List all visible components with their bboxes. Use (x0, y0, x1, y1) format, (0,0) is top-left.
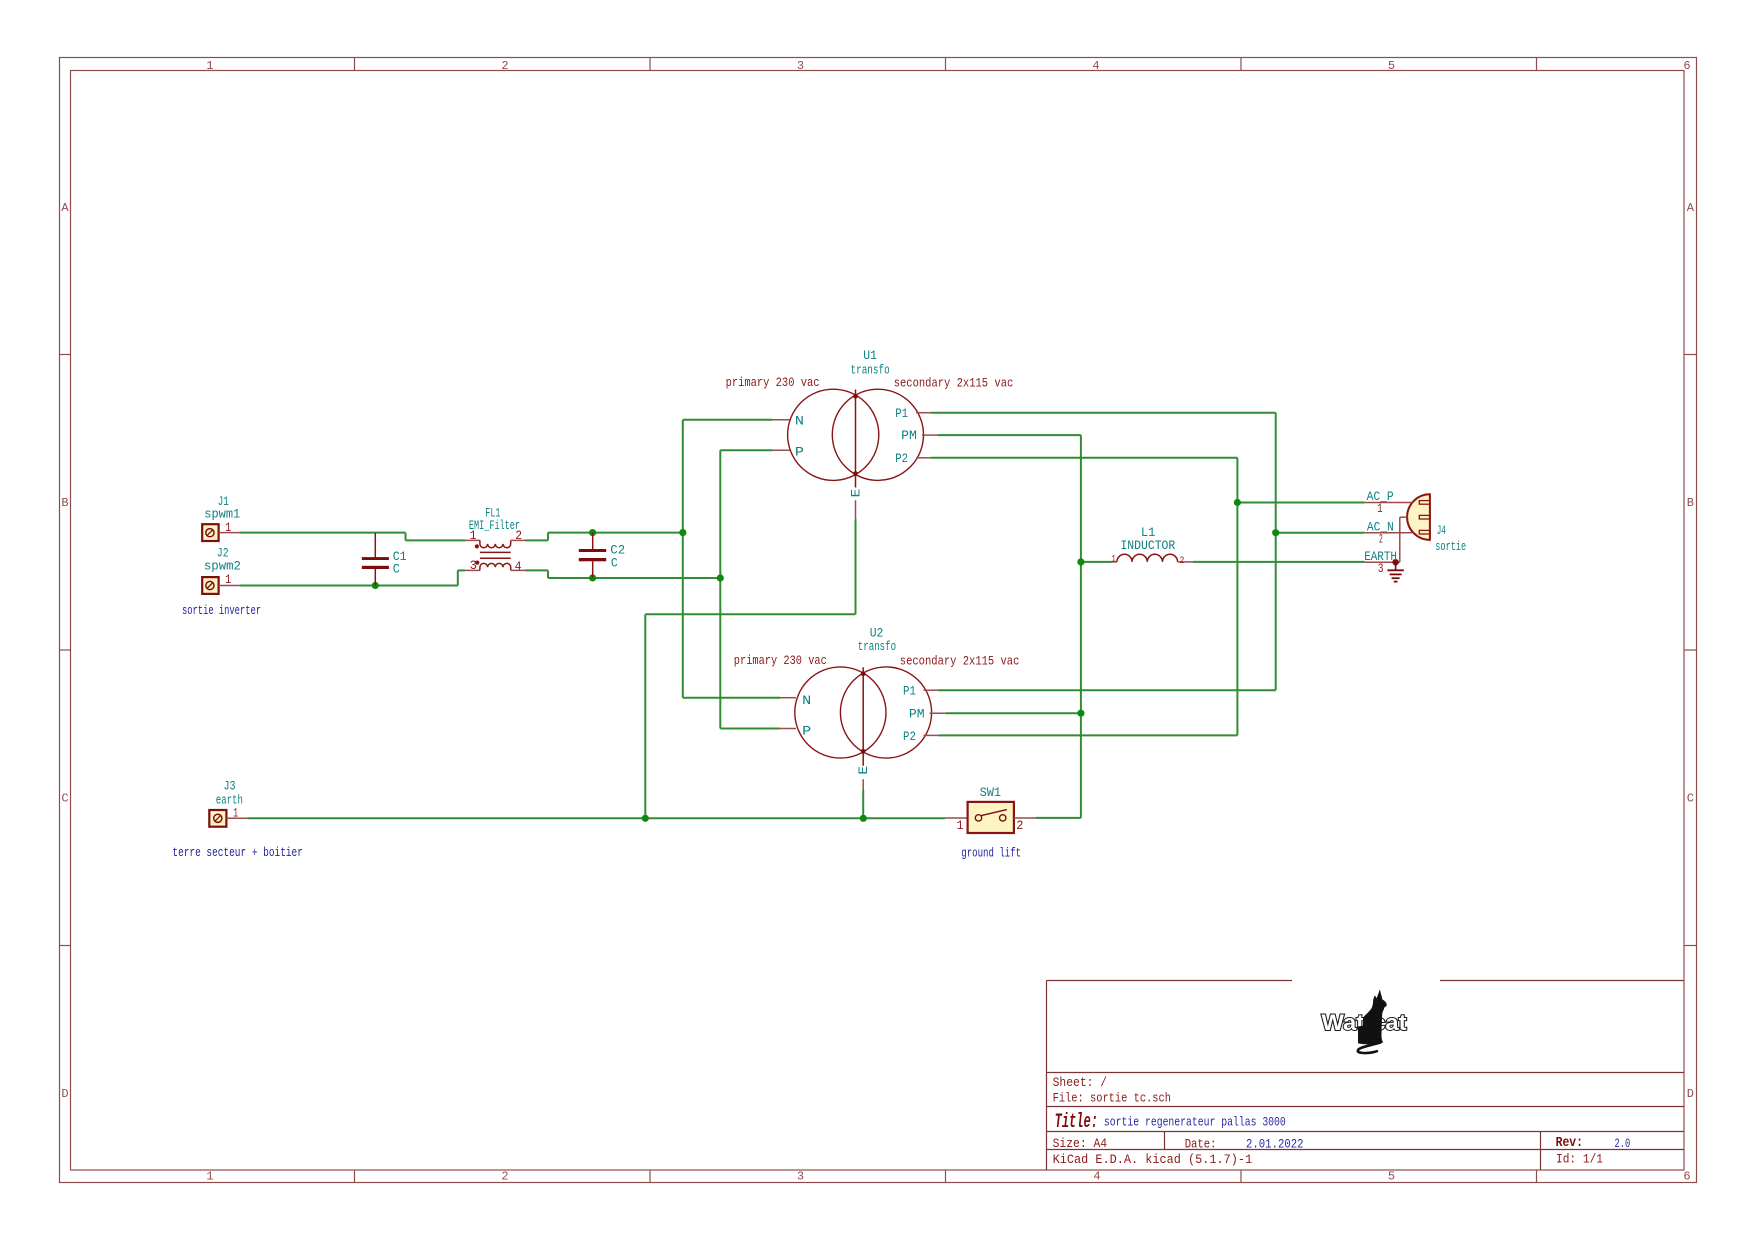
svg-text:1: 1 (225, 520, 231, 535)
svg-text:earth: earth (216, 792, 243, 807)
connector J3 (209, 810, 247, 827)
row tick C/D right (1684, 945, 1697, 947)
svg-text:N: N (795, 414, 804, 429)
connector J2 (202, 577, 240, 594)
svg-text:N: N (802, 693, 811, 708)
svg-text:P1: P1 (895, 406, 908, 421)
wire U1 E down (855, 519, 857, 615)
junction P rail end (717, 574, 724, 581)
wire to U1 N (683, 419, 773, 421)
svg-text:spwm2: spwm2 (204, 559, 241, 574)
wire spwm1 J1 to jog (240, 532, 406, 534)
title block line above Sheet (1047, 1072, 1685, 1074)
svg-text:spwm1: spwm1 (204, 507, 240, 522)
svg-text:3: 3 (797, 1170, 804, 1184)
svg-text:D: D (61, 1087, 68, 1101)
title block line above Title (1047, 1106, 1685, 1108)
svg-text:1: 1 (470, 528, 477, 543)
svg-text:PM: PM (909, 707, 925, 722)
svg-text:B: B (1687, 496, 1694, 510)
column tick 4 top (1240, 58, 1242, 71)
wire FL1 pin2 out (526, 539, 549, 541)
column tick 1 bottom (354, 1170, 356, 1183)
wire jog up to FL1 pin3 (457, 570, 459, 585)
svg-text:4: 4 (1093, 1170, 1100, 1184)
junction AC_P tap (1234, 499, 1241, 506)
wire U2 P1 east (939, 689, 1276, 691)
WIRES (240, 413, 1365, 822)
svg-text:sortie inverter: sortie inverter (182, 603, 261, 618)
junction N rail end (679, 529, 686, 536)
wire spwm2 J2 to jog (240, 585, 458, 587)
column tick 1 top (354, 58, 356, 71)
wire jog up (547, 533, 549, 541)
svg-text:E: E (849, 488, 864, 497)
wire to U1 P (720, 449, 772, 451)
divider Size/Date (1164, 1132, 1166, 1150)
svg-text:Sheet: /: Sheet: / (1053, 1075, 1108, 1090)
svg-text:1: 1 (957, 818, 964, 833)
svg-text:P2: P2 (895, 451, 908, 466)
wire L1 pin2 to J4 EARTH (1193, 561, 1365, 563)
svg-text:1: 1 (225, 572, 231, 587)
svg-text:transfo: transfo (851, 363, 890, 378)
svg-text:A: A (1687, 201, 1695, 215)
column tick 5 bottom (1536, 1170, 1538, 1183)
wire SW1 pin2 to PM vertical (1035, 817, 1081, 819)
junction C2 top (589, 529, 596, 536)
svg-text:D: D (1687, 1087, 1694, 1101)
wire P rail (548, 577, 720, 579)
wire to FL1 pin1 (406, 539, 466, 541)
svg-text:6: 6 (1683, 59, 1690, 73)
svg-text:1: 1 (1111, 555, 1116, 566)
LOGO (1322, 989, 1408, 1053)
wire U2 PM east (946, 712, 1081, 714)
svg-text:C: C (393, 561, 400, 576)
svg-text:transfo: transfo (858, 639, 896, 654)
svg-text:3: 3 (470, 558, 477, 573)
wire earth riser (644, 614, 646, 818)
svg-text:U1: U1 (863, 348, 877, 363)
svg-text:2: 2 (1016, 818, 1023, 833)
svg-text:2: 2 (501, 1170, 508, 1184)
svg-text:2.01.2022: 2.01.2022 (1246, 1137, 1304, 1152)
svg-text:sortie: sortie (1435, 539, 1466, 554)
switch SW1 (945, 802, 1035, 833)
wire E horizontal (645, 613, 855, 615)
svg-text:2: 2 (1180, 556, 1185, 567)
column tick 2 bottom (649, 1170, 651, 1183)
wire PM vertical (1080, 435, 1082, 818)
wire P2 vertical (1236, 458, 1238, 736)
TITLEBLOCK (1047, 981, 1685, 1171)
title block top edge (gap for logo bitmap) (1047, 980, 1293, 982)
capacitor C1 (362, 533, 389, 586)
svg-text:3: 3 (1378, 561, 1384, 576)
wire AC_N (1276, 532, 1365, 534)
junction U2 PM (1077, 710, 1084, 717)
cat silhouette body (1358, 989, 1387, 1044)
column tick 3 top (945, 58, 947, 71)
column tick 3 bottom (945, 1170, 947, 1183)
svg-text:B: B (61, 496, 68, 510)
svg-text:EMI_Filter: EMI_Filter (469, 518, 520, 533)
svg-text:2.0: 2.0 (1615, 1136, 1631, 1151)
title block line below Size row (1047, 1149, 1685, 1151)
junction C2 bottom (589, 574, 596, 581)
svg-text:P: P (795, 444, 804, 459)
wire to U2 P (720, 728, 780, 730)
svg-text:primary 230 vac: primary 230 vac (734, 653, 827, 668)
row tick C/D left (60, 945, 71, 947)
svg-text:PM: PM (901, 428, 917, 443)
svg-text:5: 5 (1388, 59, 1395, 73)
row tick B/C right (1684, 649, 1697, 651)
svg-text:2: 2 (1379, 531, 1383, 546)
wire jog down (405, 533, 407, 541)
svg-text:KiCad E.D.A. kicad (5.1.7)-1: KiCad E.D.A. kicad (5.1.7)-1 (1053, 1152, 1253, 1167)
svg-text:J3: J3 (224, 778, 236, 793)
title block line below Title (1047, 1131, 1685, 1133)
junction AC_N tap (1272, 529, 1279, 536)
wire U2 E down (862, 790, 864, 818)
svg-text:3: 3 (797, 59, 804, 73)
junction U2 E (860, 815, 867, 822)
column tick 2 top (649, 58, 651, 71)
row tick A/B right (1684, 354, 1697, 356)
svg-text:Date:: Date: (1185, 1137, 1217, 1152)
title block left edge (1046, 981, 1048, 1171)
wire jog down (547, 570, 549, 578)
svg-text:1: 1 (206, 1170, 213, 1184)
column tick 4 bottom (1240, 1170, 1242, 1183)
wire earth rail (247, 817, 945, 819)
svg-text:C: C (1687, 792, 1694, 806)
wire N rail (548, 532, 683, 534)
svg-text:1: 1 (206, 59, 213, 73)
svg-text:Size: A4: Size: A4 (1053, 1136, 1108, 1151)
svg-text:C: C (611, 555, 618, 570)
capacitor C2 (579, 533, 606, 578)
svg-text:C: C (61, 792, 68, 806)
svg-text:primary 230 vac: primary 230 vac (726, 375, 820, 390)
wire U1 P1 east (931, 412, 1276, 414)
svg-text:secondary 2x115 vac: secondary 2x115 vac (894, 375, 1014, 390)
svg-text:4: 4 (515, 559, 522, 574)
column tick 5 top (1536, 58, 1538, 71)
junction L1 pin1 (1077, 558, 1084, 565)
svg-text:E: E (856, 766, 871, 775)
svg-text:2: 2 (515, 528, 522, 543)
svg-text:1: 1 (1377, 501, 1382, 516)
wire N vertical U1-U2 (682, 420, 684, 698)
ground symbol (1387, 562, 1403, 581)
divider Rev/Id (1540, 1132, 1542, 1171)
EMI filter FL1 (465, 540, 525, 570)
transformer U2 (780, 667, 946, 790)
wire PM to L1 pin1 (1081, 561, 1112, 563)
wire U2 P2 east (939, 734, 1238, 736)
wire U1 P2 east (931, 457, 1238, 459)
wire stub pin3 (458, 569, 465, 571)
svg-text:Title:: Title: (1055, 1111, 1098, 1134)
svg-text:4: 4 (1092, 59, 1099, 73)
inductor L1 (1112, 554, 1193, 562)
wire FL1 pin4 out (526, 569, 549, 571)
svg-text:sortie regenerateur pallas 300: sortie regenerateur pallas 3000 (1104, 1114, 1286, 1129)
row tick A/B left (60, 354, 71, 356)
svg-text:SW1: SW1 (980, 785, 1002, 800)
junction C1 bottom (372, 582, 379, 589)
svg-text:P: P (802, 723, 811, 738)
svg-text:5: 5 (1388, 1170, 1395, 1184)
cat silhouette tail (1358, 1043, 1381, 1054)
svg-text:J4: J4 (1437, 523, 1446, 538)
svg-text:secondary 2x115 vac: secondary 2x115 vac (900, 654, 1020, 669)
svg-text:ground lift: ground lift (961, 846, 1021, 861)
wire P vertical U1-U2 (719, 450, 721, 728)
svg-text:Rev:: Rev: (1556, 1135, 1583, 1151)
svg-text:6: 6 (1683, 1170, 1690, 1184)
connector J4 (1365, 494, 1430, 565)
junction earth riser (642, 815, 649, 822)
wire U1 PM east (938, 434, 1081, 436)
wire P1 vertical (1275, 413, 1277, 691)
svg-text:2: 2 (501, 59, 508, 73)
row tick B/C left (60, 649, 71, 651)
svg-text:P1: P1 (903, 684, 916, 699)
wire to U2 N (683, 697, 780, 699)
svg-text:File: sortie tc.sch: File: sortie tc.sch (1053, 1091, 1171, 1106)
svg-text:1: 1 (233, 806, 238, 821)
connector J1 (202, 524, 240, 541)
svg-text:P2: P2 (903, 729, 916, 744)
svg-text:Id: 1/1: Id: 1/1 (1556, 1152, 1603, 1167)
svg-text:terre secteur + boitier: terre secteur + boitier (172, 845, 303, 860)
svg-text:A: A (61, 201, 69, 215)
wire AC_P (1237, 502, 1364, 504)
transformer U1 (773, 389, 938, 519)
svg-text:INDUCTOR: INDUCTOR (1120, 538, 1175, 553)
